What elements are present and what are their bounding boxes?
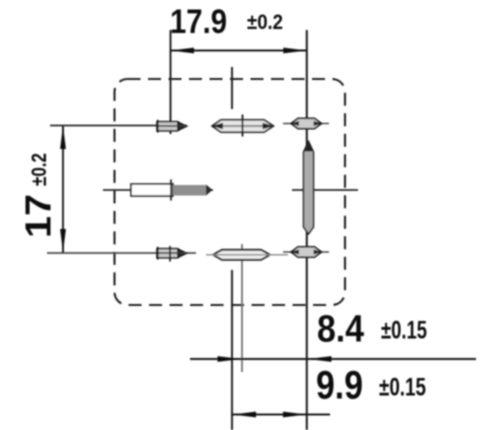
pin 7 bottom-left <box>157 246 187 262</box>
svg-text:9.9: 9.9 <box>316 364 363 408</box>
wire: horizontal centerline bottom row y=253 <box>47 252 196 254</box>
wire: bottom extension line x=232 <box>231 270 233 430</box>
pin 3 top-right <box>283 118 329 128</box>
dimension line 17.9 top <box>171 48 307 54</box>
svg-text:8.4: 8.4 <box>317 309 364 351</box>
dashed outline (relay body) <box>115 79 346 305</box>
wire: top-left extension line x=170 <box>170 30 172 134</box>
pin 1 top-left <box>157 120 187 133</box>
dimension line 9.9 <box>231 412 330 418</box>
pin 2 top-middle <box>212 115 275 137</box>
svg-text:±0.2: ±0.2 <box>28 153 51 186</box>
svg-text:17.9: 17.9 <box>170 3 227 41</box>
dimension line 17 left vertical <box>60 126 66 253</box>
svg-text:±0.15: ±0.15 <box>381 317 427 345</box>
svg-text:±0.15: ±0.15 <box>379 374 426 402</box>
wire: right extension line x=307 full height <box>306 30 308 430</box>
wire: middle pin centerline x=242 (grey) <box>241 244 243 372</box>
pin 9 bottom-right <box>283 247 329 257</box>
pin 5 middle-left (long blade) <box>131 180 213 201</box>
wire: horizontal centerline top row y=125.5 <box>50 125 187 127</box>
svg-text:±0.2: ±0.2 <box>247 11 283 34</box>
wire: horizontal centerline middle row right y=190 <box>292 189 358 191</box>
pin 6 middle-right (vertical blade) <box>304 142 314 235</box>
svg-text:17: 17 <box>18 194 59 238</box>
pin 8 bottom-middle <box>206 250 288 260</box>
dimension line 8.4 <box>190 356 476 362</box>
wire: horizontal centerline middle row left y=190 <box>103 189 213 191</box>
wire: top stub centerline x=232 <box>231 67 233 109</box>
